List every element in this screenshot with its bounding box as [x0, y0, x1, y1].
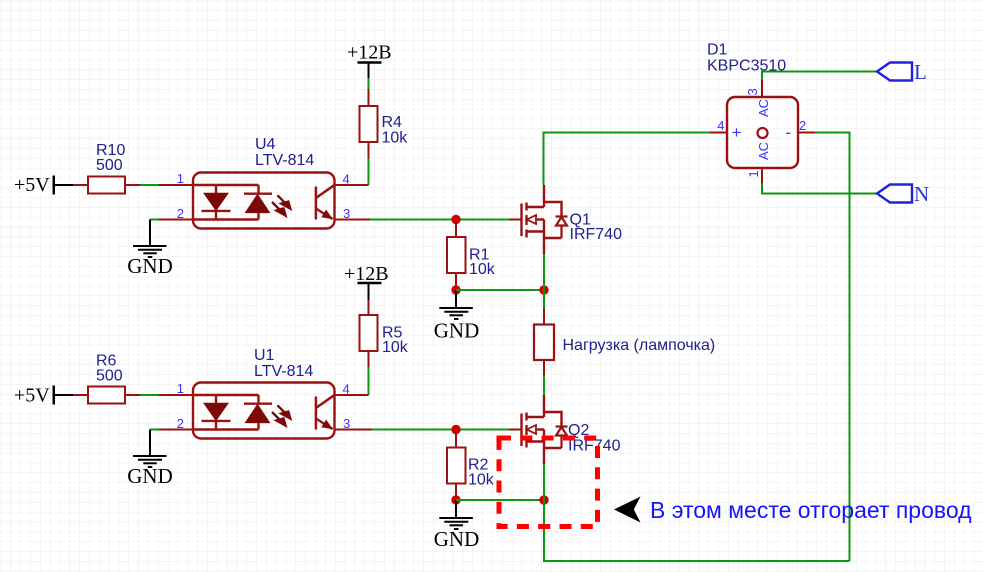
U1 pin 3 lead [335, 429, 373, 431]
svg-text:-: - [786, 123, 792, 142]
svg-text:1: 1 [177, 381, 184, 396]
svg-text:2: 2 [177, 206, 184, 221]
U1 pin 4 lead [335, 394, 369, 396]
net flag L [877, 60, 927, 84]
wire Q1 drain to D1 [544, 133, 711, 186]
svg-text:LTV-814: LTV-814 [254, 363, 313, 380]
svg-text:+: + [732, 123, 742, 142]
svg-text:Нагрузка (лампочка): Нагрузка (лампочка) [563, 337, 716, 354]
U4 LED 1 (down) [204, 193, 228, 210]
U4 phototransistor [316, 185, 334, 219]
svg-text:R4: R4 [382, 114, 403, 131]
svg-text:4: 4 [717, 118, 724, 133]
wire R5 to U1 pin 4 [368, 367, 370, 395]
svg-text:N: N [914, 182, 929, 206]
svg-text:GND: GND [127, 254, 173, 278]
wire R6 to U1 pin 1 [140, 394, 159, 396]
ground GND (R1) [434, 290, 480, 343]
U1 internal rails [194, 395, 259, 430]
wire R4 to U4 pin 4 [368, 159, 370, 186]
wire R2 to gnd node [455, 496, 457, 500]
svg-text:AC: AC [756, 99, 771, 117]
junction node Q2 source [539, 495, 548, 504]
svg-text:10k: 10k [382, 130, 409, 147]
resistor R6 [73, 353, 140, 404]
svg-text:D1: D1 [707, 42, 728, 59]
Q2 channel arrow [527, 425, 536, 434]
svg-text:+5V: +5V [14, 174, 50, 196]
D1 pin 3 lead [761, 80, 763, 97]
svg-text:10k: 10k [469, 261, 496, 278]
wire D1 pin1 to N [762, 183, 877, 194]
junction node Q1 source [539, 285, 548, 294]
U4 pin 4 lead [335, 184, 369, 186]
Q1 body diode [556, 217, 568, 239]
D1 pin 2 lead [798, 132, 815, 134]
transistor Q1 IRF740 [509, 185, 622, 254]
power flag +5V (bottom) [14, 385, 73, 407]
svg-text:+5V: +5V [14, 385, 50, 407]
svg-text:AC: AC [756, 142, 771, 160]
bridge rectifier D1 KBPC3510 [707, 42, 815, 184]
Q2 body diode [556, 427, 568, 449]
highlight dashed box [499, 438, 598, 527]
U4 LED 2 (up) [246, 195, 270, 213]
wire Q1 drain up [543, 254, 545, 290]
transistor Q2 IRF740 [509, 395, 621, 464]
net flag N [877, 182, 929, 206]
wire R10 to U4 pin 1 [140, 184, 159, 186]
svg-text:U4: U4 [255, 136, 276, 153]
svg-text:500: 500 [96, 368, 123, 385]
wire Q1 source node to load [543, 290, 545, 309]
U4 internal rails [194, 185, 259, 220]
svg-text:10k: 10k [382, 339, 409, 356]
resistor R10 [73, 142, 140, 194]
svg-text:2: 2 [177, 416, 184, 431]
D1 pin 1 lead [761, 168, 763, 183]
optocoupler U1 LTV-814 [159, 347, 350, 439]
U1 LED 2 (up) [246, 405, 270, 423]
D1 center circle [758, 128, 768, 138]
ground GND (U4 pin 2) [127, 220, 173, 279]
wire Q2 source to bottom rail [544, 500, 850, 561]
junction node R2 bottom [451, 495, 460, 504]
callout arrow [614, 497, 641, 523]
wire R2 to Q2 source [456, 499, 544, 501]
svg-text:L: L [914, 60, 927, 84]
U4 pin 3 lead [335, 219, 371, 221]
svg-text:3: 3 [745, 88, 760, 95]
U1 LED 1 (down) [204, 403, 228, 420]
power flag +12B (top) [347, 42, 392, 79]
U1 light arrows [272, 405, 290, 425]
junction node gate Q1 [451, 215, 460, 224]
U4 light arrows [272, 195, 290, 215]
junction node R1 bottom [451, 285, 460, 294]
D1 pin 4 lead [710, 132, 727, 134]
wire R1 to gnd node [455, 286, 457, 290]
ground GND (R2) [434, 500, 480, 551]
svg-text:GND: GND [434, 319, 480, 343]
svg-text:500: 500 [96, 157, 123, 174]
resistor R4 [360, 89, 409, 159]
resistor R2 [447, 430, 495, 497]
svg-text:1: 1 [746, 170, 761, 177]
svg-text:10k: 10k [468, 472, 495, 489]
svg-text:GND: GND [127, 464, 173, 488]
svg-text:IRF740: IRF740 [570, 226, 623, 243]
svg-text:2: 2 [799, 118, 806, 133]
wire Q2 source down [543, 464, 545, 500]
resistor R1 [447, 220, 496, 287]
wire +12B to R4 [368, 78, 370, 89]
power flag +5V (top) [14, 174, 73, 196]
power flag +12B (bottom) [344, 263, 389, 300]
svg-text:В этом месте отгорает провод: В этом месте отгорает провод [650, 497, 972, 523]
load (lamp) component [534, 309, 715, 376]
resistor R5 [360, 300, 409, 367]
junction node gate Q2 [451, 425, 460, 434]
U1 phototransistor [316, 395, 334, 429]
wire D1 pin3 to L [762, 72, 877, 81]
svg-text:+12B: +12B [347, 42, 392, 64]
svg-text:+12B: +12B [344, 263, 389, 285]
svg-text:1: 1 [177, 171, 184, 186]
optocoupler U4 LTV-814 [159, 136, 350, 229]
wire U4 pin3 to Q1 gate [370, 219, 509, 221]
ground GND (U1 pin 2) [127, 430, 173, 489]
wire U1 pin3 to Q2 gate [372, 429, 509, 431]
svg-text:U1: U1 [254, 347, 275, 364]
svg-text:LTV-814: LTV-814 [255, 152, 314, 169]
wire load to Q2 [543, 376, 545, 396]
Q1 channel arrow [527, 215, 536, 224]
wire R1 to Q1 source [456, 289, 544, 291]
svg-text:GND: GND [434, 527, 480, 551]
wire D1 pin2 to right rail [815, 133, 850, 562]
